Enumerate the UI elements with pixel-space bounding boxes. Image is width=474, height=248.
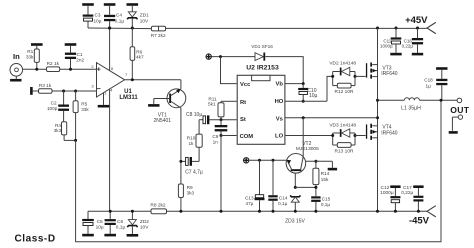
node R1-input junction (35, 68, 38, 71)
capacitor C10 (298, 84, 317, 102)
terminal -45V (409, 206, 436, 227)
capacitor C15 (311, 187, 330, 211)
wire HO pin (285, 100, 327, 102)
svg-text:C16: C16 (404, 38, 413, 43)
zener diode ZD2 (127, 211, 150, 236)
inductor L1 (378, 98, 458, 112)
svg-text:15k: 15k (321, 177, 329, 182)
wire half-bridge (377, 28, 379, 211)
node VT2 collector tap (302, 116, 305, 119)
resistor R4 (54, 122, 76, 141)
svg-text:47µ: 47µ (245, 201, 253, 206)
node midpoint (376, 99, 379, 102)
wire VD1 anode (211, 56, 255, 58)
resistor R6 (130, 28, 144, 80)
svg-text:0,1µ: 0,1µ (116, 224, 126, 230)
capacitor C7 (181, 157, 203, 176)
wire HO riser (327, 76, 333, 101)
svg-text:C8 10µ: C8 10µ (186, 112, 202, 118)
svg-text:LO: LO (275, 134, 284, 140)
resistor R14 (313, 161, 330, 187)
capacitor C17 (401, 185, 423, 211)
node C4-bus junction (108, 27, 111, 30)
svg-text:0,1µ: 0,1µ (115, 18, 125, 23)
node COM-bus junction (220, 210, 223, 213)
svg-text:4k7: 4k7 (136, 55, 144, 60)
svg-text:10V: 10V (140, 224, 149, 230)
svg-text:3: 3 (91, 83, 94, 88)
capacitor C16 (402, 28, 424, 55)
svg-text:+45V: +45V (405, 15, 428, 26)
svg-text:MJE13005: MJE13005 (296, 146, 319, 152)
diode VD3 (329, 122, 356, 145)
resistor R9 (178, 184, 194, 211)
svg-text:4: 4 (110, 88, 113, 93)
wire VT4 gate (355, 135, 366, 137)
wire VT2 base (294, 173, 296, 187)
terminal supply-B (244, 158, 249, 163)
node C10-HO junction (302, 100, 305, 103)
label In (13, 52, 20, 61)
transistor VT2 (286, 141, 319, 173)
wire input (26, 68, 97, 70)
svg-text:ZD2: ZD2 (140, 219, 149, 225)
svg-text:VD1 SF16: VD1 SF16 (251, 44, 273, 49)
svg-text:C3: C3 (95, 13, 101, 18)
diode VD2 (329, 61, 356, 86)
resistor R10 (187, 120, 202, 162)
wire Vb pin (285, 83, 304, 85)
node VD3 loop left (331, 134, 334, 137)
node R6-output junction (131, 78, 134, 81)
terminal +45V (405, 15, 436, 34)
svg-text:IRF640: IRF640 (381, 71, 398, 77)
svg-text:1n: 1n (213, 139, 219, 144)
node VT4-bus junction (376, 210, 379, 213)
svg-text:ZD1: ZD1 (140, 13, 149, 18)
svg-text:2n2: 2n2 (76, 58, 84, 63)
svg-text:L1 35µH: L1 35µH (401, 105, 421, 111)
capacitor C4 (104, 3, 125, 28)
svg-text:10µ: 10µ (309, 93, 318, 99)
svg-text:R6: R6 (136, 49, 142, 54)
svg-text:10µ: 10µ (96, 224, 104, 230)
svg-text:3k3: 3k3 (187, 190, 195, 195)
wire base node (295, 186, 316, 188)
svg-text:R10: R10 (187, 135, 196, 140)
wire Vcc (221, 57, 237, 84)
wire COM to bus (220, 136, 222, 212)
svg-text:1000µ: 1000µ (380, 44, 393, 49)
terminal supply-A (206, 54, 211, 59)
wire VT3 gate (355, 75, 366, 77)
svg-text:ZD3 15V: ZD3 15V (285, 218, 305, 224)
wire -45V bus left (88, 210, 152, 212)
svg-text:C11: C11 (383, 38, 391, 43)
node C8-R11-St junction (220, 118, 223, 121)
node rail-C11 junction (395, 27, 398, 30)
label Class-D (15, 234, 56, 245)
node C17-bus junction (417, 210, 420, 213)
input jack J1 (10, 64, 26, 82)
capacitor C11 (380, 28, 402, 55)
resistor R3 (39, 83, 53, 93)
svg-text:C2: C2 (51, 100, 57, 105)
resistor R12 (333, 83, 355, 95)
svg-text:R8 2k2: R8 2k2 (150, 203, 166, 209)
svg-text:0,1µ: 0,1µ (321, 202, 331, 207)
svg-text:3k3: 3k3 (54, 128, 62, 133)
svg-text:7: 7 (125, 72, 128, 77)
node C6-bus junction (109, 210, 112, 213)
resistor R11 (208, 96, 237, 119)
node OUT junction (440, 99, 443, 102)
svg-text:R5: R5 (81, 102, 87, 107)
capacitor C2 (47, 91, 69, 122)
wire 10V bus (88, 27, 151, 30)
svg-text:R9: R9 (187, 185, 193, 190)
svg-text:VD2 1n4148: VD2 1n4148 (329, 61, 356, 67)
zener diode ZD3 (285, 195, 305, 224)
svg-text:Class-D: Class-D (15, 234, 56, 245)
node rail-VT3 junction (376, 27, 379, 30)
node C13 tap (258, 159, 261, 162)
svg-text:10V: 10V (140, 18, 149, 23)
wire comparator output (125, 79, 181, 81)
node Vcc tap (219, 55, 222, 58)
svg-text:R4: R4 (55, 123, 61, 128)
capacitor C18 (424, 67, 447, 100)
svg-text:C6: C6 (117, 219, 123, 225)
ground R3 return (30, 87, 38, 95)
node VD3 loop right (354, 134, 357, 137)
svg-text:R7 2k2: R7 2k2 (151, 33, 166, 38)
svg-text:HO: HO (275, 99, 284, 105)
resistor R5 (73, 91, 89, 140)
capacitor C13 (245, 160, 265, 211)
resistor R2 (47, 61, 60, 72)
svg-text:C4: C4 (116, 13, 122, 18)
wire -45V bus (166, 210, 427, 212)
capacitor C9 (212, 120, 227, 145)
svg-text:C9: C9 (212, 134, 218, 139)
svg-text:R12 10R: R12 10R (335, 89, 354, 95)
node C14 tap (272, 159, 275, 162)
resistor R8 (150, 203, 166, 214)
svg-text:R1: R1 (27, 49, 33, 54)
wire +45V rail (166, 27, 427, 29)
ground pin1 (98, 93, 110, 108)
terminal OUT (449, 98, 470, 134)
svg-text:0,22µ: 0,22µ (401, 190, 413, 196)
node C1-input junction (69, 68, 72, 71)
svg-text:R11: R11 (208, 96, 217, 101)
svg-text:1µ: 1µ (425, 83, 431, 88)
svg-text:33k: 33k (81, 107, 89, 112)
node C2 junction (62, 90, 65, 93)
svg-text:Vb: Vb (275, 81, 283, 87)
svg-text:LM311: LM311 (119, 95, 138, 101)
svg-text:COM: COM (240, 134, 254, 140)
svg-text:8: 8 (111, 66, 114, 71)
op-amp U1 (91, 63, 138, 101)
svg-text:33k: 33k (26, 55, 34, 60)
capacitor C1 (65, 43, 85, 69)
wire pin8 supply (109, 28, 111, 71)
svg-text:R3 1k: R3 1k (39, 83, 52, 88)
wire feedback loop (76, 100, 441, 241)
node ZD3-bus junction (294, 210, 297, 213)
svg-text:C18: C18 (424, 77, 433, 82)
svg-text:C1: C1 (77, 52, 83, 57)
svg-text:C15: C15 (322, 197, 331, 202)
node R14-C15 junction (314, 186, 317, 189)
node C15-bus junction (314, 210, 317, 213)
svg-text:1k: 1k (188, 141, 194, 146)
svg-text:0,22µ: 0,22µ (402, 44, 414, 49)
node VD2 loop right (354, 75, 357, 78)
svg-text:10µ: 10µ (94, 18, 102, 23)
node VT1-C7-R9 junction (179, 160, 182, 163)
svg-text:C5: C5 (97, 219, 103, 225)
capacitor C5 (82, 211, 104, 236)
capacitor C8 (186, 112, 237, 124)
node C9-COM junction (220, 134, 223, 137)
wire LO pin (285, 135, 333, 137)
svg-text:C14: C14 (279, 196, 288, 201)
op-amp U2 IR2153 (237, 65, 285, 145)
svg-text:IRF640: IRF640 (381, 130, 398, 136)
node R14 top junction (314, 160, 317, 163)
resistor R1 (26, 43, 43, 69)
svg-text:Rt: Rt (240, 100, 246, 106)
node pin8-bus junction (108, 27, 111, 30)
wire VT2 emitter (249, 159, 287, 161)
capacitor C14 (268, 160, 288, 211)
svg-text:VD3 1n4148: VD3 1n4148 (329, 122, 356, 128)
svg-text:Vs: Vs (276, 117, 283, 123)
node C12-bus junction (394, 210, 397, 213)
svg-text:0,1µ: 0,1µ (278, 201, 288, 206)
wire VT2 collector (302, 118, 304, 157)
wire COM pin (221, 135, 237, 137)
resistor R7 (151, 26, 166, 38)
svg-text:2N5401: 2N5401 (154, 118, 172, 124)
node R5 junction (74, 90, 77, 93)
node ZD2-bus junction (131, 210, 134, 213)
resistor R13 (333, 143, 355, 155)
wire Vs pin (285, 117, 378, 119)
svg-text:VT2: VT2 (302, 141, 311, 147)
node R9-bus junction (179, 210, 182, 213)
svg-text:Vcc: Vcc (240, 82, 251, 88)
svg-text:100p: 100p (47, 106, 58, 111)
capacitor C12 (380, 185, 400, 211)
wire VD1 to Vb (265, 57, 303, 84)
svg-text:St: St (240, 117, 246, 123)
svg-text:-45V: -45V (409, 215, 430, 226)
ground R14 (306, 161, 337, 170)
svg-text:R13 10R: R13 10R (335, 149, 354, 155)
svg-text:1000µ: 1000µ (380, 190, 394, 196)
node rail-C16 junction (416, 27, 419, 30)
capacitor C3 (82, 3, 102, 28)
svg-text:5k1: 5k1 (208, 102, 216, 107)
transistor VT3 (366, 63, 398, 79)
transistor VT1 (148, 80, 186, 124)
wire pin4 to bus (109, 89, 111, 211)
node C14-bus junction (272, 210, 275, 213)
zener diode ZD1 (127, 3, 150, 28)
node R4-R5 junction (74, 139, 77, 142)
wire VT1 emitter (180, 108, 182, 184)
svg-text:In: In (13, 52, 20, 61)
svg-text:C7 4,7µ: C7 4,7µ (185, 170, 203, 176)
svg-text:R2 1k: R2 1k (47, 61, 60, 66)
node C13-bus junction (258, 210, 261, 213)
node VT2 base junction (294, 186, 297, 189)
svg-text:U2 IR2153: U2 IR2153 (246, 65, 279, 72)
diode VD1 (251, 44, 273, 61)
svg-text:2: 2 (91, 64, 94, 69)
node Vb junction (302, 82, 305, 85)
svg-text:C13: C13 (245, 195, 254, 200)
transistor VT4 (366, 124, 398, 140)
node VD2 loop left (331, 75, 334, 78)
capacitor C6 (104, 211, 125, 236)
wire inverting input (52, 90, 97, 92)
node ZD1-bus junction (131, 27, 134, 30)
svg-text:R14: R14 (321, 171, 330, 176)
svg-text:OUT: OUT (450, 105, 469, 115)
node Vs junction (376, 116, 379, 119)
